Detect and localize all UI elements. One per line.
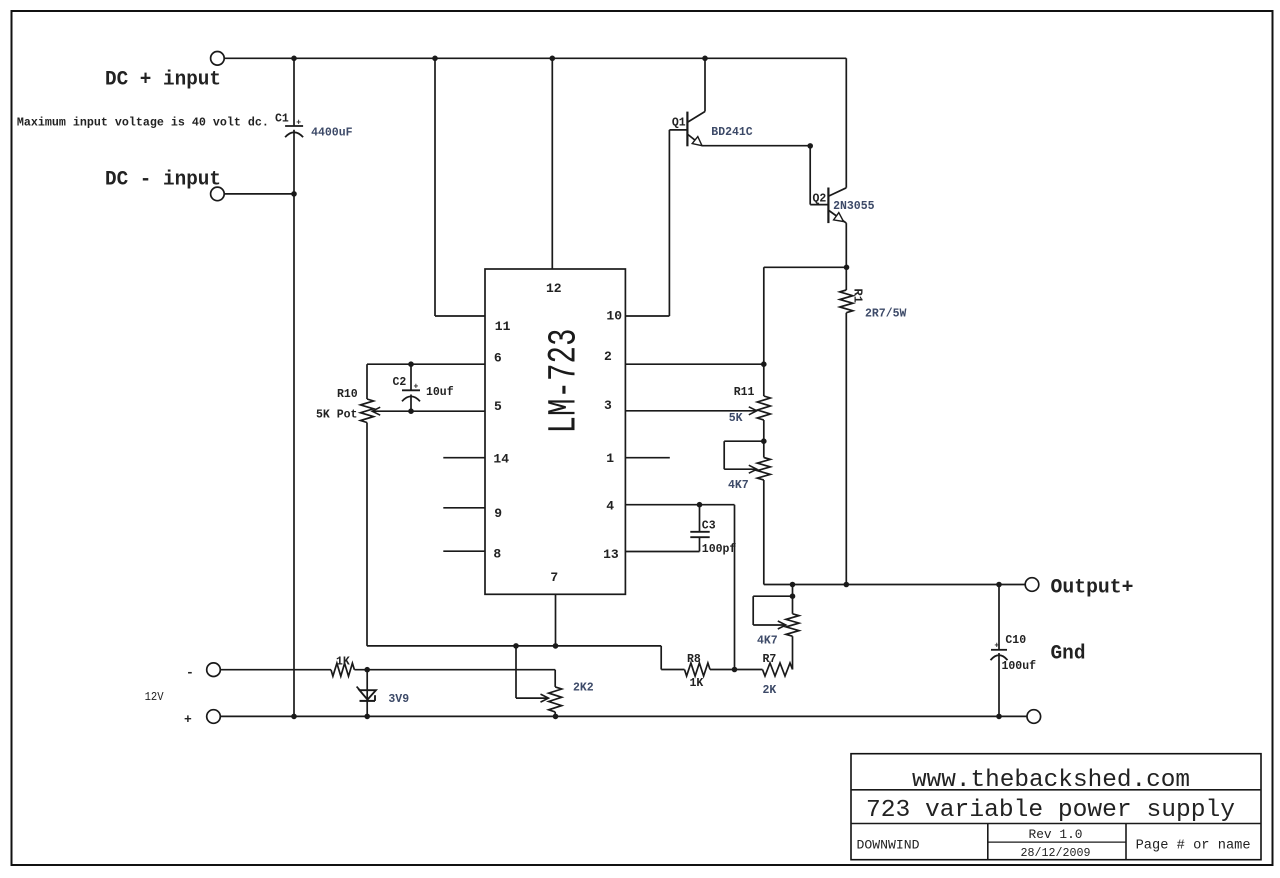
pin 1 label	[606, 451, 614, 466]
svg-text:723 variable power supply: 723 variable power supply	[866, 797, 1235, 824]
wire pin7 row	[367, 645, 661, 647]
label 3V9	[388, 693, 409, 706]
transistor Q2 base bar	[827, 188, 829, 224]
node top rail / pin12 branch	[550, 56, 556, 62]
svg-text:Gnd: Gnd	[1051, 643, 1086, 666]
svg-text:12: 12	[546, 281, 562, 296]
svg-text:+: +	[296, 119, 301, 128]
title text www.thebackshed.com	[912, 767, 1190, 794]
node 2K2 wiper junction	[513, 643, 519, 649]
label BD241C	[711, 126, 753, 139]
wire pin4 down	[734, 505, 736, 670]
label 5K	[729, 412, 743, 425]
svg-text:Rev 1.0: Rev 1.0	[1029, 827, 1083, 842]
label Q1	[672, 117, 686, 130]
label 1K R8	[690, 677, 704, 690]
wire Q1 base to pin10	[625, 130, 687, 316]
wire R1 bottom	[845, 313, 847, 585]
svg-text:10: 10	[606, 309, 622, 324]
svg-text:2R7/5W: 2R7/5W	[865, 308, 907, 321]
resistor R7	[763, 663, 793, 676]
node bottom rail C1	[291, 714, 297, 720]
terminal DC+ input	[211, 52, 225, 66]
label R1	[851, 289, 865, 303]
transistor Q1 base bar	[686, 112, 688, 147]
svg-text:www.thebackshed.com: www.thebackshed.com	[912, 767, 1190, 794]
svg-text:Maximum input voltage is 40 vo: Maximum input voltage is 40 volt dc.	[17, 116, 269, 129]
svg-text:R11: R11	[734, 386, 755, 399]
wire R1 top	[845, 267, 847, 290]
wire emitter junction left	[764, 266, 847, 268]
label Q2	[813, 193, 827, 206]
wire C1 branch lower	[293, 130, 295, 717]
label Gnd	[1051, 643, 1086, 666]
svg-text:DC - input: DC - input	[105, 169, 221, 192]
node top rail / C1	[291, 56, 297, 62]
wire R11 top	[763, 267, 765, 396]
label 2K2	[573, 682, 594, 695]
transistor Q1 emitter	[688, 135, 702, 146]
label plus	[184, 712, 192, 727]
svg-text:Page # or name: Page # or name	[1136, 839, 1251, 854]
svg-text:DOWNWIND: DOWNWIND	[857, 838, 920, 853]
pin 1 stub	[625, 457, 669, 459]
pin 9 label	[494, 506, 502, 521]
svg-text:14: 14	[493, 451, 509, 466]
label 10uf	[426, 386, 454, 399]
wire pin12 branch	[551, 58, 553, 269]
wire R8 left	[661, 646, 684, 670]
potentiometer R10	[361, 399, 374, 423]
title text 28/12/2009	[1021, 847, 1091, 860]
svg-text:2K2: 2K2	[573, 682, 594, 695]
wire 4K7 lower bottom	[792, 636, 794, 669]
label 2N3055	[833, 200, 875, 213]
wire top rail to Q2 collector	[845, 58, 847, 188]
pin 6 label	[494, 351, 502, 366]
wire 1K row right	[354, 669, 555, 671]
capacitor C10	[991, 634, 1027, 660]
potentiometer R11	[757, 396, 770, 420]
wire 2K2 top lead	[554, 670, 556, 687]
wire C10 top lead	[998, 585, 1000, 650]
svg-text:R1: R1	[851, 289, 865, 303]
label 1K	[336, 656, 350, 669]
pin 10 label	[606, 309, 622, 324]
svg-text:C2: C2	[393, 376, 407, 389]
wire pin7	[555, 594, 557, 646]
pin 2 label	[604, 349, 612, 364]
label minus	[186, 665, 194, 680]
svg-text:BD241C: BD241C	[711, 126, 753, 139]
node R7R8 pin4 junction	[732, 667, 738, 673]
resistor R8	[685, 663, 711, 676]
node output 4K7 lower	[790, 582, 796, 588]
wire pin3 row R11 wiper	[625, 407, 756, 415]
capacitor C3	[690, 519, 715, 537]
wire 2K2 wiper	[516, 646, 549, 702]
op-amp U1 LM-723 body	[485, 269, 625, 594]
svg-text:3: 3	[604, 398, 612, 413]
svg-text:28/12/2009: 28/12/2009	[1021, 847, 1091, 860]
svg-text:5K: 5K	[729, 412, 743, 425]
node bottom rail zener	[364, 714, 370, 720]
wire DC- to C1 branch	[224, 193, 294, 195]
pin 14 stub	[443, 457, 485, 459]
svg-text:R8: R8	[687, 653, 701, 666]
svg-text:1K: 1K	[336, 656, 350, 669]
svg-text:100pf: 100pf	[702, 543, 737, 556]
wire 4K7 lower wiper loop	[753, 596, 792, 629]
node R11 bottom junction	[761, 438, 767, 444]
svg-text:5: 5	[494, 399, 502, 414]
wire top rail	[224, 57, 846, 59]
svg-text:100uf: 100uf	[1002, 660, 1037, 673]
svg-text:C3: C3	[702, 519, 716, 532]
pin 11 label	[495, 319, 511, 334]
node 4K7 lower loop junction	[790, 593, 796, 599]
wire Q2 emitter down	[845, 223, 847, 267]
potentiometer 2K2	[549, 687, 562, 712]
label 2R7/5W	[865, 308, 907, 321]
title text Page # or name	[1136, 839, 1251, 854]
svg-text:R10: R10	[337, 388, 358, 401]
svg-text:Q2: Q2	[813, 193, 827, 206]
note maximum input voltage	[17, 116, 269, 129]
svg-text:13: 13	[603, 547, 619, 562]
svg-text:10uf: 10uf	[426, 386, 454, 399]
wire R7-R8	[710, 669, 763, 671]
svg-text:5K Pot: 5K Pot	[316, 409, 357, 422]
wire zener top lead	[366, 670, 368, 701]
pin 7 label	[550, 570, 558, 585]
svg-text:C10: C10	[1005, 634, 1026, 647]
wire pin13 row	[625, 551, 699, 553]
wire pin2 row	[625, 363, 763, 365]
terminal 12V minus	[207, 663, 221, 677]
label DC + input	[105, 69, 221, 92]
label LM-723	[543, 329, 588, 434]
node bottom rail 2K2	[553, 714, 559, 720]
label Output+	[1051, 577, 1134, 600]
transistor Q2 emitter	[829, 211, 846, 224]
svg-text:7: 7	[550, 570, 558, 585]
wire C3 top lead	[699, 505, 701, 532]
svg-text:3V9: 3V9	[388, 693, 409, 706]
label R8	[687, 653, 701, 666]
wire C2 bottom lead	[410, 395, 412, 412]
wire 4K7 to output row	[763, 480, 765, 585]
wire C10 bottom lead	[998, 653, 1000, 716]
label DC - input	[105, 169, 221, 192]
terminal 12V plus	[207, 710, 221, 724]
svg-text:R7: R7	[763, 653, 777, 666]
pin 12 label	[546, 281, 562, 296]
label 100uf	[1002, 660, 1037, 673]
wire 1K row left	[220, 669, 331, 671]
svg-text:+: +	[184, 712, 192, 727]
diode zener 3V9	[357, 687, 376, 701]
transistor Q2 collector	[829, 188, 846, 196]
node pin4 C3 junction	[697, 502, 703, 508]
svg-text:2K: 2K	[763, 684, 777, 697]
svg-text:+: +	[994, 642, 999, 651]
resistor 1K	[331, 663, 354, 676]
wire Q1 collector branch	[704, 58, 706, 111]
svg-text:4K7: 4K7	[757, 635, 778, 648]
node Q1 emitter corner	[807, 143, 813, 149]
capacitor C2	[393, 376, 421, 401]
svg-text:6: 6	[494, 351, 502, 366]
node zener top	[364, 667, 370, 673]
pin 8 label	[493, 546, 501, 561]
label R7	[763, 653, 777, 666]
node output R1	[844, 582, 850, 588]
wire pin4 row	[625, 504, 734, 506]
svg-text:DC + input: DC + input	[105, 69, 221, 92]
svg-text:4K7: 4K7	[728, 479, 749, 492]
node pin2 junction	[761, 361, 767, 367]
pin 14 label	[493, 451, 509, 466]
capacitor C1	[275, 113, 303, 138]
node C2 top junction	[408, 361, 414, 367]
pin 3 label	[604, 398, 612, 413]
wire zener bottom lead	[366, 701, 368, 717]
pin 4 label	[606, 499, 614, 514]
pin 8 stub	[443, 550, 485, 552]
svg-text:9: 9	[494, 506, 502, 521]
label 4400uF	[311, 127, 353, 140]
pin 5 label	[494, 399, 502, 414]
wire pin11 branch	[435, 58, 485, 316]
wire bottom rail	[220, 715, 1027, 717]
wire R10 bottom	[366, 423, 368, 646]
pin 9 stub	[443, 507, 485, 509]
title text Rev 1.0	[1029, 827, 1083, 842]
transistor Q1 collector	[688, 112, 705, 123]
wire C2 top lead	[410, 364, 412, 390]
svg-text:Output+: Output+	[1051, 577, 1134, 600]
svg-text:Q1: Q1	[672, 117, 686, 130]
wire C3 bottom lead	[699, 537, 701, 551]
label 100pf	[702, 543, 737, 556]
transistor Q1 emitter arrow	[692, 137, 702, 146]
svg-text:2: 2	[604, 349, 612, 364]
terminal Output+	[1025, 578, 1039, 592]
node pin7 junction	[553, 643, 559, 649]
svg-text:8: 8	[493, 546, 501, 561]
label 4K7 upper	[728, 479, 749, 492]
svg-text:2N3055: 2N3055	[833, 200, 875, 213]
resistor R1	[840, 290, 853, 313]
wire pin6 row	[367, 363, 485, 365]
title text 723 variable power supply	[866, 797, 1235, 824]
svg-text:4: 4	[606, 499, 614, 514]
title block box	[851, 754, 1261, 860]
wire 2K2 bottom lead	[554, 712, 556, 717]
svg-text:1: 1	[606, 451, 614, 466]
svg-text:11: 11	[495, 319, 511, 334]
svg-text:4400uF: 4400uF	[311, 127, 353, 140]
svg-text:12V: 12V	[145, 691, 164, 704]
title text DOWNWIND	[857, 838, 920, 853]
wire 4K7 lower top	[792, 585, 794, 614]
wire pin5 row R10 wiper	[372, 407, 485, 415]
svg-text:C1: C1	[275, 113, 289, 126]
node bottom rail C10	[996, 714, 1002, 720]
wire R11 to 4K7	[763, 420, 765, 458]
transistor Q2 emitter arrow	[834, 213, 844, 222]
node top rail / pin11 branch	[432, 56, 438, 62]
node C2 bottom junction	[408, 408, 414, 414]
wire Q1 emitter to Q2 base	[810, 146, 828, 205]
label 5K Pot	[316, 409, 357, 422]
pin 13 label	[603, 547, 619, 562]
potentiometer 4K7 upper	[757, 458, 770, 481]
label R10	[337, 388, 358, 401]
svg-text:LM-723: LM-723	[543, 329, 588, 434]
node DC- junction	[291, 191, 297, 197]
terminal Gnd	[1027, 710, 1041, 724]
wire output row	[764, 584, 1025, 586]
wire C1 branch upper	[293, 58, 295, 125]
node output C10	[996, 582, 1002, 588]
potentiometer 4K7 lower	[786, 614, 799, 636]
svg-text:1K: 1K	[690, 677, 704, 690]
wire Q1 emitter run	[702, 145, 810, 147]
node top rail / Q1 collector	[702, 56, 708, 62]
svg-text:-: -	[186, 665, 194, 680]
wire 4K7 wiper loop	[724, 441, 764, 473]
label 12V	[145, 691, 164, 704]
label 4K7 lower	[757, 635, 778, 648]
node Q2 emitter junction	[844, 265, 850, 271]
terminal DC- input	[211, 187, 225, 201]
svg-text:+: +	[414, 383, 419, 392]
wire R10 top	[366, 364, 368, 399]
label R11	[734, 386, 755, 399]
label 2K	[763, 684, 777, 697]
